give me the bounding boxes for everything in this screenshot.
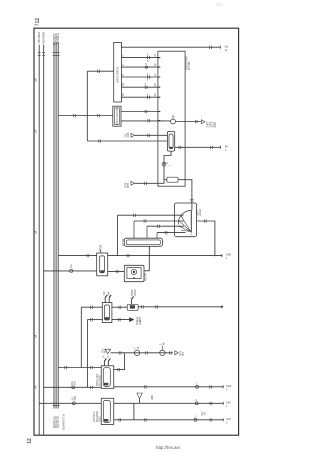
svg-text:NOID: NOID [215,122,217,128]
shift lock sol text block [208,121,217,128]
wire bus to solenoid A upper [58,367,101,369]
bus label GRN/WHT [52,33,56,45]
wire branch to solenoid S1 lower pin [87,140,167,142]
wire bus to SLU [58,115,113,117]
solenoid bottom contact [133,277,135,279]
svg-text:12: 12 [35,18,41,24]
wire chain [111,352,173,354]
svg-text:SOLENOID: SOLENOID [100,375,102,386]
wire K2 right to arrow [112,319,129,321]
wire main feed y=255.6 left of relay K1 [58,255,96,257]
wire SCU to gauge pin 1 [121,57,157,59]
svg-text:A/T SW: A/T SW [122,238,125,246]
page number 12 top-left [35,18,41,24]
wire condenser to end dot [138,306,222,308]
solenoid B label [94,411,101,422]
svg-text:SHIFT CONTROL: SHIFT CONTROL [118,65,120,83]
relay K1 label [99,244,103,251]
svg-text:C417: C417 [226,419,232,421]
wire V1 vertical [80,307,82,367]
border section mark C [34,129,36,131]
relay K1 [97,253,108,276]
svg-text:WHT: WHT [128,182,130,188]
svg-text:D: D [35,231,37,235]
wire SLU to gauge pin 6 [121,111,158,113]
wire R1 to transistor box [178,180,192,211]
bus label GRN/RED [54,33,58,44]
relay K2 pins above [105,298,109,303]
bus end label wide [63,413,66,430]
wire K2 lower from V2 [87,319,102,321]
svg-text:BLU/WHT A/T 16: BLU/WHT A/T 16 [63,413,66,430]
gauge assembly box U3 [158,51,185,186]
block B1 (slide switch) [124,238,162,246]
gauge left edge pin ticks [158,58,160,121]
svg-text:RED: RED [75,396,77,401]
svg-text:(A/T IND): (A/T IND) [188,61,191,70]
wire lamp to connector triangle [175,121,201,123]
svg-text:NOISE: NOISE [132,289,134,296]
connector triangle T2 [201,120,205,124]
shift control unit U1 [114,43,122,103]
wire vertical branch [86,71,88,141]
border section mark B [34,78,36,80]
wire SCU to gauge pin 4 [121,86,157,88]
wire K1 to solenoid box M1 [108,270,125,272]
gauge assembly label [186,56,191,70]
bus label WHT/RED [42,32,46,44]
wire SCU to gauge pin 2 [121,66,157,68]
key interlock solenoid label [146,272,148,281]
svg-text:E: E [35,335,37,339]
wire into transistor box D [157,232,186,234]
bus label WHT/BLK [37,32,41,43]
page number rule top-left [34,24,38,26]
svg-text:KEY INT: KEY INT [146,272,148,281]
wire into transistor box C [147,225,184,227]
transistor box U4 [175,203,197,237]
svg-text:KEY: KEY [104,291,106,296]
wire chain branch down to solenoid A [114,353,125,370]
block pin down [144,246,149,270]
wire bus2 to K1 lower [44,270,97,272]
wire into transistor box A [118,214,184,216]
svg-text:WHT/BLK: WHT/BLK [37,32,41,43]
ground G401 [139,399,141,404]
condenser label [132,289,137,296]
svg-text:C417: C417 [226,403,232,405]
resistor R1 [167,177,178,182]
lamp L1 in gauge [171,119,176,124]
motor circle [131,269,136,274]
wire bus1 to solenoid B [39,402,101,404]
svg-text:C: C [35,130,37,134]
block pins up [134,221,157,238]
svg-text:BLU/YEL 14: BLU/YEL 14 [58,416,60,428]
wire into transistor box B [134,220,184,222]
svg-text:C416: C416 [226,255,232,257]
wire K2 upper from V1 [81,306,102,308]
svg-text:RED: RED [140,320,142,325]
svg-text:G401: G401 [152,394,154,400]
small label block near wire H [202,411,207,416]
wire gate box output right [197,221,215,256]
lamp L3 [160,350,165,355]
border section mark F [34,386,36,388]
svg-text:SHIFT LOCK UNIT: SHIFT LOCK UNIT [117,107,119,125]
diode D1 [162,162,166,166]
svg-text:WHT/RED: WHT/RED [42,32,46,44]
wire solenoid A right to connector [114,386,223,388]
lamp L2 [134,350,139,355]
noise condenser C1 [127,304,138,310]
wire SCU to gauge pin 5 [121,96,157,98]
wire solenoid B lower to connector [114,419,223,421]
wire bus line 4 [55,43,57,409]
bus end label BLU/BLK [54,416,56,428]
wire link G to H [133,403,135,420]
wire SCU to gauge pin 3 [121,76,157,78]
wire T1 to solenoid S1 [135,134,168,136]
page number 12 bottom-left [27,438,33,444]
shift gate fan Q1 [190,210,192,232]
key interlock solenoid B [101,398,114,424]
arrow to next page [129,318,134,322]
bus end label BLU/RED [56,415,58,428]
wire K2 right through condenser [112,306,127,308]
wire bus line 1 [38,45,40,435]
solenoid A top marks [104,361,108,366]
connector triangle T3 [125,182,130,188]
svg-text:LEVER: LEVER [200,209,202,216]
transistor box label [198,209,202,216]
connector ticks on bus lines [38,52,60,55]
svg-text:C416: C416 [226,386,232,388]
solenoid S1 coil [167,131,174,151]
wire SLU to gauge pin 7 [121,120,171,123]
page frame [34,28,239,435]
key interlock solenoid box M1 [124,265,144,281]
relay K2 [102,303,112,323]
svg-text:12: 12 [27,438,33,444]
wire vertical from A [117,215,119,255]
bus label GRN/BLU [56,33,60,44]
wire SCU output to connector C1 [121,46,220,48]
shift lock solenoid A [101,366,114,389]
border section mark E [34,335,36,337]
connector triangle T1 [125,132,130,137]
svg-text:BLK: BLK [183,351,185,356]
solenoid A label [97,373,102,386]
wire V2 vertical [86,320,88,388]
bus end label BLU/YEL [58,416,60,428]
shift lock unit U2 [113,106,121,126]
svg-text:ASSY: ASSY [98,416,101,422]
diode path from S1 [164,151,171,177]
svg-text:GRN: GRN [128,132,130,137]
wire bus2 to solenoid A lower [44,386,102,388]
wire T3 into gauge box [135,178,165,184]
faint header mark [216,3,223,7]
wire bus to SCU input [87,70,113,72]
wire bus line 5 [57,43,59,409]
svg-text:COND: COND [135,289,137,296]
svg-text:http://tns.ae/: http://tns.ae/ [156,445,181,450]
wire main feed right of K1 to connector [108,255,222,257]
chain: connector triangle down [102,348,107,353]
wire S1 to connector right [175,146,221,148]
bus bottom ticks [53,404,60,406]
pin wire labels between SCU and gauge [123,53,157,96]
connector triangle right [175,351,178,355]
watermark [156,445,181,450]
wire solenoid B right to connector [114,402,223,404]
wire bus line 2 [43,45,45,435]
svg-text:B: B [35,79,37,83]
wire bus line 3 [53,43,55,409]
svg-text:BLK: BLK [75,380,77,385]
border section mark D [34,231,36,233]
